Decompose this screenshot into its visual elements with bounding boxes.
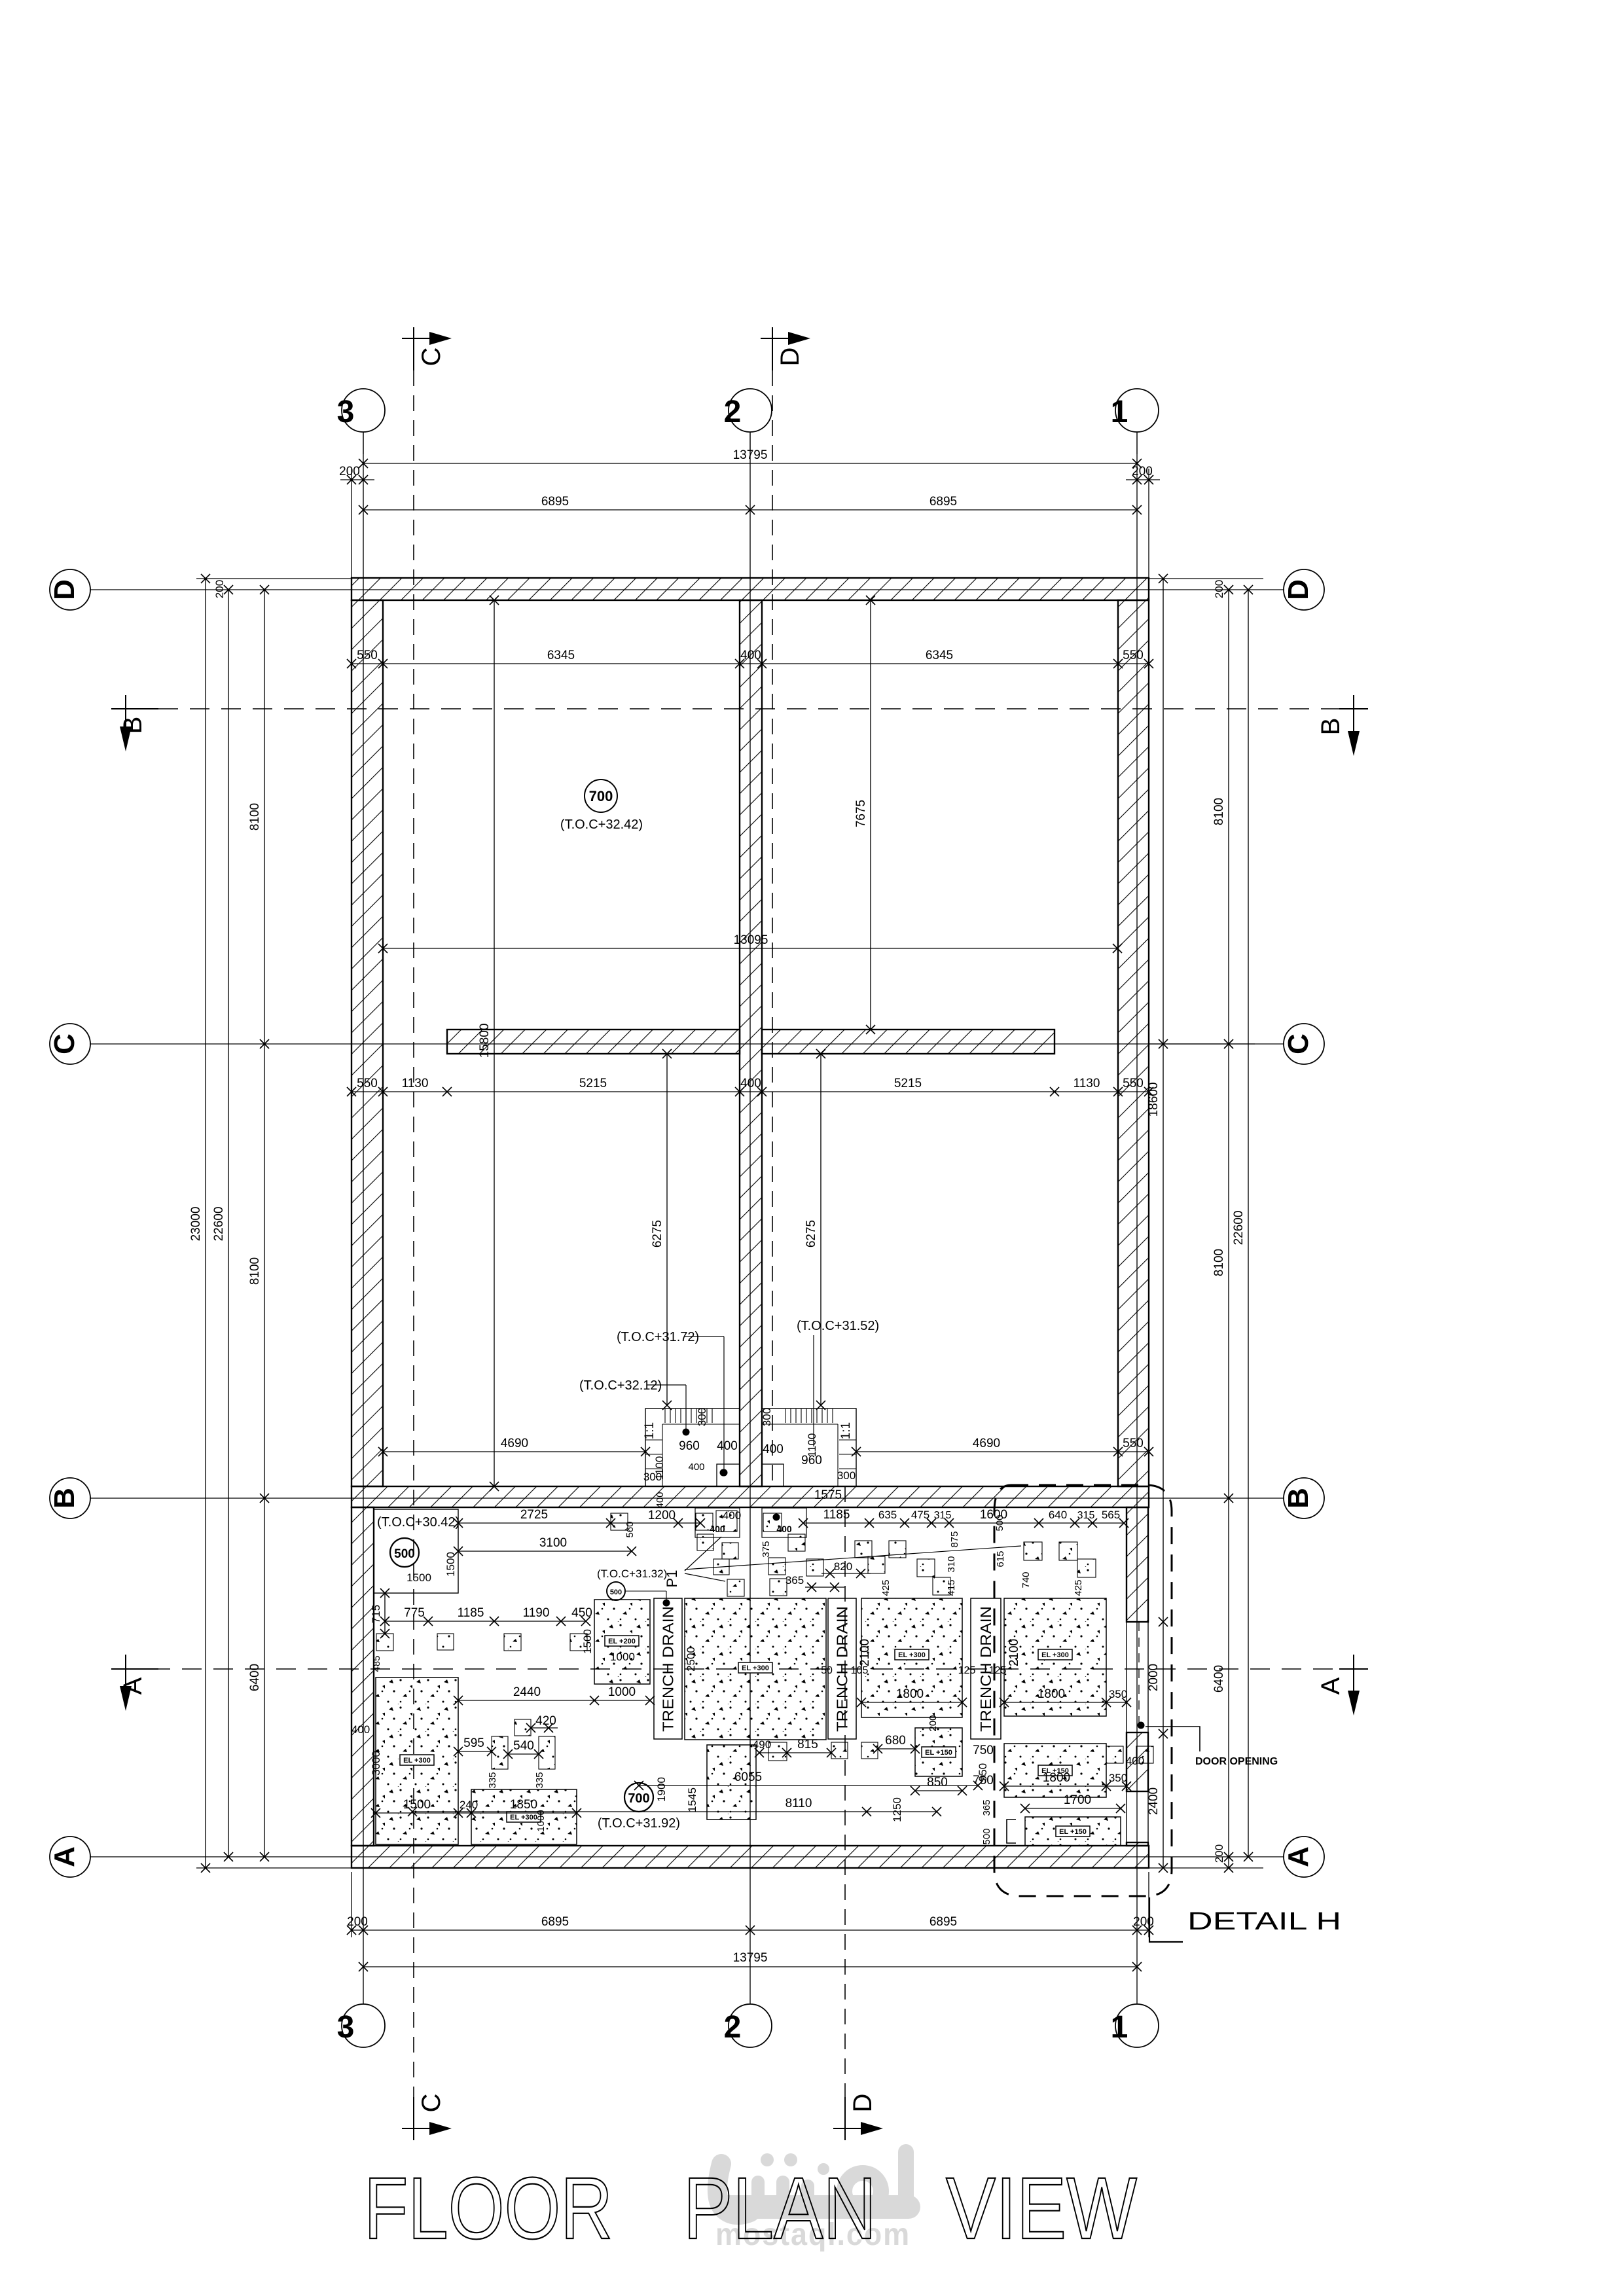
grid bubble 3 bottom — [342, 2004, 385, 2047]
small pad 31 — [1106, 1746, 1123, 1763]
right tank vertical dim 7675 — [870, 600, 871, 1030]
svg-text:A: A — [1316, 1677, 1345, 1695]
svg-text:8100: 8100 — [1212, 1249, 1226, 1276]
svg-text:425: 425 — [1073, 1579, 1084, 1596]
grid bubble C right — [1284, 1024, 1324, 1064]
svg-text:550: 550 — [1123, 1437, 1144, 1450]
svg-text:1850: 1850 — [510, 1798, 537, 1812]
svg-text:C: C — [48, 1033, 81, 1054]
svg-text:C: C — [417, 2094, 446, 2113]
section line B-B — [158, 708, 1342, 709]
section marker C top — [413, 327, 414, 370]
svg-text:400: 400 — [655, 1492, 666, 1508]
svg-text:365: 365 — [785, 1574, 804, 1587]
ramp right pit box — [762, 1464, 784, 1486]
dim 4690 left above B — [383, 1451, 645, 1452]
dim 6055 — [639, 1785, 978, 1786]
svg-text:550: 550 — [1123, 649, 1144, 662]
dim 6895 6895 top — [363, 509, 1137, 511]
svg-text:1250: 1250 — [891, 1797, 903, 1822]
svg-text:1545: 1545 — [686, 1787, 698, 1812]
svg-text:560: 560 — [624, 1521, 636, 1537]
svg-text:1100: 1100 — [806, 1433, 818, 1458]
svg-text:2440: 2440 — [513, 1685, 541, 1699]
small pad 7 — [727, 1579, 744, 1596]
svg-text:1500: 1500 — [403, 1798, 431, 1812]
svg-text:550: 550 — [357, 649, 378, 662]
svg-text:6400: 6400 — [248, 1664, 262, 1691]
svg-text:740: 740 — [1020, 1571, 1032, 1588]
dim 200/6895/6895/200 bottom — [352, 1929, 1149, 1931]
svg-text:6400: 6400 — [1212, 1665, 1226, 1693]
slab mark 700 circle left tank — [585, 780, 617, 812]
small pad 21 — [376, 1634, 393, 1651]
svg-text:6345: 6345 — [926, 649, 953, 662]
svg-text:1500: 1500 — [444, 1552, 457, 1577]
dim 680 — [878, 1748, 915, 1749]
svg-text:2100: 2100 — [858, 1639, 872, 1666]
svg-text:1500: 1500 — [406, 1571, 431, 1584]
small pad 23 — [504, 1634, 521, 1651]
lower chamber dim 6275 left — [666, 1054, 668, 1405]
svg-text:4690: 4690 — [501, 1437, 528, 1450]
svg-text:200: 200 — [1213, 1844, 1225, 1863]
svg-text:8100: 8100 — [248, 803, 262, 831]
trench drain 2 — [828, 1598, 856, 1739]
grid bubble D left — [50, 569, 90, 610]
svg-text:3000: 3000 — [370, 1751, 382, 1776]
dim 1800/350 R1 — [1004, 1702, 1127, 1703]
svg-text:DOOR OPENING: DOOR OPENING — [1195, 1756, 1278, 1767]
section line D-D upper — [772, 370, 773, 1486]
pad P 1000x1500 — [594, 1600, 650, 1684]
wall right lower upper-part — [1127, 1507, 1148, 1622]
dim 550/6345/400/6345/550 below top wall — [352, 663, 1149, 664]
svg-text:13795: 13795 — [733, 1951, 768, 1965]
svg-text:350: 350 — [1109, 1688, 1127, 1700]
svg-text:315: 315 — [1077, 1510, 1095, 1521]
svg-text:1: 1 — [1111, 395, 1128, 429]
right ext lines — [1149, 578, 1263, 579]
svg-text:485: 485 — [371, 1655, 382, 1672]
svg-text:3: 3 — [337, 395, 355, 429]
svg-text:550: 550 — [357, 1077, 378, 1090]
svg-text:700: 700 — [589, 788, 613, 804]
svg-text:EL +300: EL +300 — [403, 1757, 431, 1765]
small pad 5 — [722, 1543, 738, 1559]
grid bubble 2 top — [749, 432, 751, 454]
dim 550/1130/5215/400/5215/1130/550 at row C — [352, 1091, 1149, 1092]
dim 1700 — [1025, 1808, 1121, 1809]
section marker C bottom — [413, 2097, 414, 2140]
svg-text:(T.O.C+31.92): (T.O.C+31.92) — [598, 1816, 680, 1831]
svg-text:475: 475 — [911, 1509, 929, 1521]
grid bubble B right — [1284, 1478, 1324, 1518]
small pad 30 — [861, 1742, 878, 1759]
svg-text:635: 635 — [878, 1509, 897, 1521]
dims right cluster row1 — [803, 1522, 1124, 1524]
small pad 25 — [492, 1736, 508, 1769]
svg-text:565: 565 — [1102, 1509, 1120, 1521]
svg-text:400: 400 — [717, 1439, 738, 1453]
svg-text:EL +300: EL +300 — [898, 1651, 926, 1659]
small pad 26 — [539, 1736, 555, 1769]
small pad 14 — [889, 1541, 906, 1558]
svg-text:13095: 13095 — [734, 933, 768, 947]
dim 200 top-right — [1126, 479, 1160, 480]
svg-text:200: 200 — [347, 1915, 368, 1929]
svg-text:400: 400 — [688, 1462, 704, 1473]
step pad right — [762, 1508, 806, 1537]
svg-text:700: 700 — [628, 1791, 649, 1806]
small pad 4 — [697, 1534, 713, 1551]
svg-text:310: 310 — [946, 1556, 957, 1572]
dim 490/815 — [759, 1752, 831, 1753]
ramp left — [645, 1408, 740, 1486]
svg-text:5215: 5215 — [579, 1077, 607, 1090]
small pad 24 — [570, 1634, 587, 1651]
svg-text:960: 960 — [679, 1439, 700, 1453]
dim 13095 mid — [383, 948, 1117, 949]
svg-text:2500: 2500 — [685, 1647, 697, 1672]
svg-text:A: A — [118, 1677, 147, 1695]
svg-text:(T.O.C+31.32): (T.O.C+31.32) — [597, 1568, 667, 1580]
svg-text:315: 315 — [934, 1510, 952, 1521]
pad S2 — [707, 1745, 756, 1820]
svg-text:365: 365 — [981, 1799, 992, 1816]
svg-text:22600: 22600 — [212, 1207, 226, 1242]
svg-text:1800: 1800 — [1038, 1687, 1065, 1701]
svg-text:550: 550 — [1123, 1077, 1144, 1090]
svg-text:6275: 6275 — [804, 1220, 818, 1247]
svg-text:715: 715 — [370, 1605, 382, 1623]
svg-text:DETAIL H: DETAIL H — [1187, 1908, 1341, 1935]
svg-text:300: 300 — [643, 1471, 662, 1483]
door opening jamb lines — [1126, 1622, 1127, 1732]
right chain 22600 — [1248, 590, 1249, 1857]
grid line 1 — [1136, 432, 1138, 2004]
grid bubble A left — [50, 1837, 90, 1877]
pad M1 1850x1000 — [471, 1789, 577, 1844]
svg-text:615: 615 — [995, 1551, 1006, 1567]
svg-text:400: 400 — [740, 1077, 761, 1090]
svg-text:EL +300: EL +300 — [510, 1814, 537, 1821]
grid line C — [90, 1043, 1284, 1045]
wall grid-2 central — [740, 600, 762, 1486]
svg-text:1:1: 1:1 — [643, 1422, 657, 1439]
ramp left pit box — [717, 1464, 740, 1486]
svg-text:1185: 1185 — [458, 1606, 484, 1620]
svg-text:1: 1 — [1111, 2010, 1128, 2045]
svg-text:6895: 6895 — [929, 1915, 957, 1929]
svg-text:850: 850 — [927, 1776, 948, 1789]
svg-text:B: B — [1316, 718, 1345, 736]
small pad 10 — [768, 1558, 785, 1575]
svg-text:7675: 7675 — [854, 800, 868, 827]
svg-text:1190: 1190 — [523, 1606, 550, 1620]
svg-text:15800: 15800 — [478, 1024, 492, 1058]
dim 1800/350 MR — [861, 1702, 962, 1703]
section marker A left — [125, 1655, 126, 1686]
dim 595/540 — [458, 1751, 492, 1752]
small pad 19 — [1059, 1542, 1077, 1560]
svg-text:335: 335 — [534, 1772, 545, 1788]
svg-text:375: 375 — [761, 1541, 772, 1557]
svg-text:5215: 5215 — [894, 1077, 922, 1090]
svg-text:6055: 6055 — [734, 1770, 762, 1784]
svg-text:3100: 3100 — [539, 1536, 567, 1550]
dim 2725/1200/400 — [458, 1522, 700, 1524]
trench drain 3 — [971, 1598, 1001, 1739]
small pad 3 — [716, 1511, 737, 1532]
svg-text:1:1: 1:1 — [839, 1422, 853, 1439]
svg-text:2725: 2725 — [520, 1508, 548, 1522]
svg-text:240: 240 — [460, 1799, 478, 1811]
svg-text:2000: 2000 — [1147, 1664, 1161, 1691]
svg-text:200: 200 — [928, 1715, 939, 1731]
pad R1 1800x2100 — [1004, 1598, 1106, 1716]
grid bubble 3 top — [363, 432, 364, 454]
grid bubble 2 bottom — [729, 2004, 772, 2047]
svg-text:4690: 4690 — [973, 1437, 1000, 1450]
svg-text:750: 750 — [973, 1774, 994, 1787]
svg-text:105: 105 — [851, 1665, 869, 1676]
svg-text:500: 500 — [994, 1515, 1005, 1531]
small pad 8 — [763, 1513, 782, 1532]
wall top (row D) — [352, 578, 1149, 600]
svg-text:VIEW: VIEW — [946, 2160, 1137, 2257]
wall right lower mid-part — [1127, 1732, 1148, 1791]
svg-text:820: 820 — [834, 1560, 852, 1573]
pad R2 1800 — [1004, 1744, 1106, 1797]
grid line 3 — [363, 432, 364, 2004]
bottom ext lines — [351, 1872, 352, 1937]
pump pad 1500x1500 outline — [374, 1509, 458, 1593]
svg-text:8100: 8100 — [1212, 798, 1226, 825]
svg-text:B: B — [48, 1488, 81, 1509]
grid line A — [90, 1856, 1284, 1857]
pad R3 1700 — [1025, 1817, 1121, 1846]
svg-text:300: 300 — [761, 1408, 773, 1426]
svg-text:335: 335 — [487, 1772, 498, 1788]
pad M2 850 — [915, 1728, 962, 1776]
detail H leader — [1149, 1897, 1183, 1942]
svg-text:C: C — [417, 348, 446, 367]
svg-text:(T.O.C+32.42): (T.O.C+32.42) — [560, 817, 643, 832]
svg-text:1800: 1800 — [896, 1687, 924, 1701]
wall row C beam left — [447, 1030, 740, 1054]
svg-text:415: 415 — [946, 1579, 957, 1596]
step pad left — [695, 1508, 740, 1537]
svg-text:6345: 6345 — [547, 649, 575, 662]
svg-text:13795: 13795 — [733, 448, 768, 462]
svg-text:595: 595 — [463, 1736, 484, 1750]
svg-text:C: C — [1282, 1033, 1314, 1054]
svg-text:500: 500 — [394, 1547, 415, 1561]
svg-text:1130: 1130 — [1074, 1077, 1100, 1090]
small pad 9 — [788, 1534, 805, 1551]
svg-text:B: B — [1282, 1488, 1314, 1509]
extension lines top — [351, 469, 352, 583]
small pad 12 — [770, 1579, 787, 1596]
small pad 32 — [1136, 1746, 1153, 1763]
mark 700 circle bottom — [624, 1783, 653, 1812]
small pad 11 — [806, 1559, 823, 1576]
svg-text:2: 2 — [724, 395, 742, 429]
small pad 18 — [1024, 1542, 1042, 1560]
dim 3100 — [458, 1551, 632, 1552]
svg-text:200: 200 — [1133, 1915, 1154, 1929]
wall right lower bottom-part — [1127, 1842, 1148, 1846]
svg-text:540: 540 — [513, 1739, 534, 1753]
door opening dashed centerline — [1138, 1622, 1140, 1732]
svg-text:1185: 1185 — [823, 1508, 850, 1522]
svg-text:500: 500 — [610, 1588, 622, 1596]
svg-text:D: D — [1282, 579, 1314, 600]
small pad 22 — [437, 1634, 454, 1650]
svg-text:640: 640 — [1049, 1509, 1067, 1521]
dim 13795 top — [363, 463, 1137, 464]
wall left lower — [352, 1507, 374, 1846]
svg-text:425: 425 — [880, 1579, 892, 1596]
svg-text:2: 2 — [724, 2010, 742, 2045]
small pad 27 — [514, 1719, 531, 1736]
ramp right — [762, 1408, 856, 1486]
detail H dashed boundary — [994, 1485, 1172, 1896]
svg-text:D: D — [48, 579, 81, 600]
pad MR 1800x2100 — [861, 1598, 962, 1717]
svg-text:450: 450 — [571, 1606, 592, 1620]
svg-text:EL +200: EL +200 — [608, 1638, 636, 1645]
svg-text:1000: 1000 — [535, 1810, 547, 1831]
section marker B left — [125, 695, 126, 726]
svg-text:50: 50 — [821, 1665, 833, 1676]
svg-text:1200: 1200 — [648, 1509, 676, 1522]
svg-text:(T.O.C+32.12): (T.O.C+32.12) — [579, 1378, 662, 1393]
pad B1 2500x2500 — [685, 1598, 826, 1740]
svg-text:P1: P1 — [664, 1570, 680, 1588]
svg-text:2100: 2100 — [1007, 1639, 1021, 1666]
title FLOOR PLAN VIEW — [364, 2160, 1137, 2257]
svg-text:8110: 8110 — [785, 1797, 812, 1810]
dim 200 top-left — [340, 479, 374, 480]
wall bottom (row A) — [352, 1846, 1149, 1868]
svg-text:FLOOR: FLOOR — [364, 2160, 613, 2257]
wall right upper — [1118, 600, 1149, 1486]
svg-text:EL +150: EL +150 — [1059, 1828, 1087, 1836]
grid line 2 — [749, 432, 751, 2004]
svg-text:875: 875 — [949, 1531, 960, 1547]
svg-text:A: A — [1282, 1846, 1314, 1867]
svg-text:6895: 6895 — [541, 1915, 569, 1929]
small pad 29 — [831, 1742, 848, 1759]
svg-text:6895: 6895 — [541, 495, 569, 509]
svg-text:775: 775 — [404, 1606, 425, 1620]
wall left upper — [352, 600, 383, 1486]
svg-text:1130: 1130 — [402, 1077, 429, 1090]
section line C-C — [413, 370, 414, 2118]
section line D-D lower — [844, 1486, 846, 2118]
svg-text:D: D — [776, 348, 804, 367]
svg-text:500: 500 — [981, 1828, 992, 1844]
dim 8110/1250 — [412, 1811, 937, 1812]
grid bubble C left — [50, 1024, 90, 1064]
svg-text:D: D — [848, 2094, 877, 2113]
svg-text:EL +300: EL +300 — [742, 1664, 769, 1672]
svg-text:400: 400 — [352, 1723, 370, 1736]
small pad 28 — [768, 1742, 787, 1761]
wall row B — [352, 1486, 1149, 1507]
svg-text:EL +150: EL +150 — [925, 1749, 952, 1757]
left chain 23000 — [205, 579, 206, 1868]
dim 2440/1000 — [458, 1700, 650, 1701]
bracket left of R3 — [1007, 1820, 1016, 1843]
grid line B — [90, 1498, 1284, 1499]
svg-text:3: 3 — [337, 2010, 355, 2045]
svg-text:1900: 1900 — [655, 1777, 668, 1802]
left tank vertical dim 15800 — [494, 600, 495, 1486]
svg-text:200: 200 — [339, 465, 360, 478]
section marker A right — [1353, 1655, 1354, 1691]
svg-text:8100: 8100 — [248, 1257, 262, 1285]
small pad 6 — [713, 1559, 729, 1575]
svg-text:490: 490 — [753, 1738, 771, 1751]
small pad 20 — [1077, 1559, 1096, 1577]
svg-text:350: 350 — [1109, 1772, 1127, 1784]
right chain 18600/2000/2400 — [1163, 579, 1164, 1868]
grid bubble A right — [1284, 1837, 1324, 1877]
svg-text:200: 200 — [1213, 580, 1225, 598]
grid bubble 1 top — [1136, 432, 1138, 454]
mark 500 circle — [390, 1538, 419, 1567]
lower chamber dim 6275 right — [820, 1054, 821, 1405]
grid bubble D right — [1284, 569, 1324, 610]
section marker B right — [1353, 695, 1354, 731]
svg-text:1000: 1000 — [608, 1685, 636, 1699]
svg-text:TRENCH DRAIN: TRENCH DRAIN — [834, 1606, 851, 1732]
dim 1500/240/1850 — [376, 1812, 577, 1814]
svg-text:680: 680 — [885, 1734, 906, 1748]
section marker D top — [772, 327, 773, 370]
svg-text:EL +300: EL +300 — [1041, 1651, 1069, 1659]
svg-text:125: 125 — [989, 1665, 1007, 1676]
svg-text:300: 300 — [696, 1408, 708, 1426]
svg-text:6275: 6275 — [651, 1220, 664, 1247]
grid line D — [90, 589, 1284, 590]
svg-text:6895: 6895 — [929, 495, 957, 509]
svg-text:23000: 23000 — [189, 1207, 203, 1242]
svg-text:300: 300 — [837, 1469, 856, 1482]
small pad 13 — [855, 1541, 872, 1558]
svg-text:400: 400 — [723, 1509, 741, 1522]
small pad 17 — [933, 1577, 950, 1595]
svg-text:PLAN: PLAN — [683, 2160, 876, 2257]
svg-text:400: 400 — [740, 649, 761, 662]
svg-text:(T.O.C+31.72): (T.O.C+31.72) — [617, 1330, 699, 1344]
svg-text:815: 815 — [797, 1738, 818, 1751]
grid bubble B left — [50, 1478, 90, 1518]
svg-text:200: 200 — [213, 580, 226, 598]
watermark — [717, 2152, 909, 2215]
svg-text:1000: 1000 — [610, 1651, 635, 1663]
dim 1800/350 R2 — [1004, 1785, 1127, 1787]
svg-text:1700: 1700 — [1064, 1793, 1091, 1807]
svg-text:(T.O.C+31.52): (T.O.C+31.52) — [797, 1319, 879, 1333]
small pad 1 — [611, 1513, 628, 1530]
svg-text:400: 400 — [763, 1443, 784, 1456]
svg-text:22600: 22600 — [1232, 1211, 1246, 1246]
pad L1 1500x3000 — [376, 1677, 458, 1844]
